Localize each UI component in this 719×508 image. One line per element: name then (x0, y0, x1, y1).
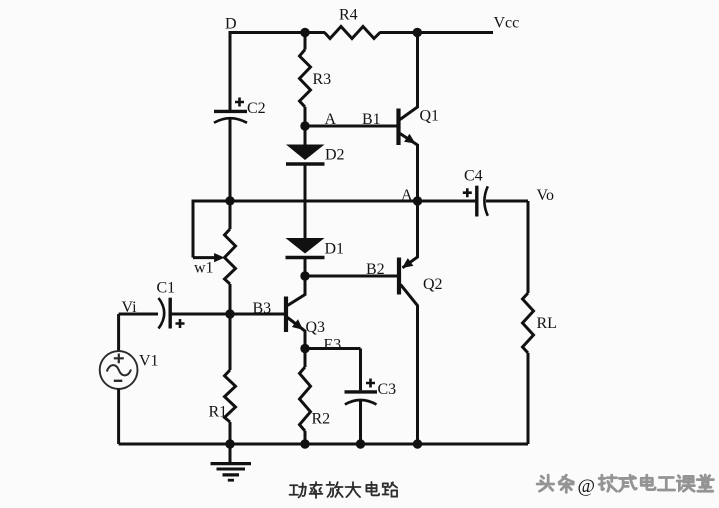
wire w1 to node B3 (229, 284, 232, 314)
label pin B3 (253, 300, 272, 317)
potentiometer w1 body (225, 229, 236, 284)
svg-text:E3: E3 (324, 337, 342, 354)
svg-text:RL: RL (537, 315, 557, 332)
node B3 (225, 309, 234, 318)
watermark 头条 @技成电工课堂 (535, 473, 713, 497)
capacitor C3 (345, 349, 378, 445)
label pin B1 (362, 111, 381, 128)
watermark @ sign (578, 476, 596, 497)
resistor R4 (325, 27, 381, 39)
node E3 (300, 344, 309, 353)
wire wiper arm of potentiometer w1 (193, 200, 225, 263)
ground (211, 444, 252, 480)
svg-text:V1: V1 (139, 353, 159, 370)
diode D2 (286, 126, 325, 164)
label R2 (312, 411, 331, 428)
svg-text:Vo: Vo (537, 187, 555, 204)
svg-text:C2: C2 (247, 100, 266, 117)
wire top rail from R4 to Vcc terminal (380, 31, 494, 34)
node A at R3 bottom (300, 121, 309, 130)
label D1 (325, 241, 345, 258)
svg-text:R2: R2 (312, 411, 331, 428)
svg-text:C3: C3 (378, 381, 397, 398)
node junction C2 / w1 / node-A rail (225, 196, 234, 205)
label node D (225, 16, 237, 33)
wire node-A rail right of C4 to Vo corner (486, 200, 528, 203)
wire top rail from node D to R4 (230, 31, 325, 34)
label RL (537, 315, 557, 332)
label R4 (339, 7, 358, 24)
wire from C2 down through node to potentiometer w1 (229, 119, 232, 230)
svg-text:R1: R1 (209, 404, 228, 421)
node junction bottom rail / R2 (300, 439, 309, 448)
wire input from Vi to C1 (119, 313, 158, 316)
svg-text:A: A (401, 187, 413, 204)
label C2 (247, 100, 266, 117)
capacitor C2 (214, 98, 247, 123)
label V1 (139, 353, 159, 370)
label node A on rail (401, 187, 413, 204)
svg-text:@: @ (578, 476, 596, 497)
wire base B3 of Q3 (230, 313, 284, 316)
wire bottom rail (119, 443, 528, 446)
wire Vi down to source V1 (117, 314, 120, 352)
wire Q1 emitter down to node A (416, 144, 419, 201)
wire C1 to node B3 (170, 313, 230, 316)
svg-text:B2: B2 (366, 261, 385, 278)
label Vo (537, 187, 555, 204)
label C4 (464, 168, 483, 185)
svg-text:C1: C1 (157, 279, 176, 296)
wire left branch from D down to capacitor C2 (229, 31, 232, 111)
svg-text:Vcc: Vcc (494, 15, 520, 32)
svg-text:D: D (225, 16, 237, 33)
label C3 (378, 381, 397, 398)
label D2 (325, 147, 345, 164)
node junction bottom rail / ground (225, 439, 234, 448)
resistor RL (523, 201, 534, 444)
transistor Q3 (286, 276, 305, 349)
wire node-A horizontal rail (193, 200, 475, 203)
transistor Q1 (399, 33, 418, 146)
svg-text:Vi: Vi (122, 299, 138, 316)
caption 功率放大电路 (290, 482, 397, 498)
label Q3 (306, 319, 326, 336)
svg-text:D1: D1 (325, 241, 345, 258)
node junction top rail / R3 (300, 28, 309, 37)
svg-text:A: A (325, 111, 337, 128)
label Q2 (423, 276, 443, 293)
svg-text:B1: B1 (362, 111, 381, 128)
label R3 (313, 71, 332, 88)
node junction bottom rail / Q2 collector (413, 439, 422, 448)
node A on rail at Q1 emitter (413, 196, 422, 205)
diode D1 (286, 238, 325, 276)
svg-text:B3: B3 (253, 300, 272, 317)
label Q1 (420, 108, 440, 125)
label w1 (194, 260, 214, 277)
label Vcc (494, 15, 520, 32)
resistor R1 (225, 314, 236, 444)
resistor R3 (300, 31, 311, 126)
wire node A to base B1 of Q1 (305, 125, 397, 128)
label Vi (122, 299, 138, 316)
svg-text:w1: w1 (194, 260, 214, 277)
wire emitter node E3 to C3 (305, 347, 361, 350)
svg-text:Q2: Q2 (423, 276, 443, 293)
svg-text:D2: D2 (325, 147, 345, 164)
wire from D2 cathode crossing node-A rail down to D1 (304, 164, 307, 239)
label R1 (209, 404, 228, 421)
transistor Q2 (399, 200, 418, 444)
node junction D1 / B2 / Q3 collector (300, 271, 309, 280)
svg-text:C4: C4 (464, 168, 483, 185)
label pin B2 (366, 261, 385, 278)
label C1 (157, 279, 176, 296)
resistor R2 (300, 349, 311, 445)
capacitor C1 (159, 298, 185, 329)
svg-text:R4: R4 (339, 7, 358, 24)
node junction bottom rail / C3 (356, 439, 365, 448)
svg-text:R3: R3 (313, 71, 332, 88)
wire V1 to bottom rail (117, 389, 120, 445)
label node A upper (325, 111, 337, 128)
capacitor C4 (463, 186, 488, 217)
svg-text:Q3: Q3 (306, 319, 326, 336)
svg-text:Q1: Q1 (420, 108, 440, 125)
node junction top rail / Q1 collector (413, 28, 422, 37)
wire base B2 of Q2 (305, 275, 397, 278)
label pin E3 (324, 337, 342, 354)
source V1 (100, 351, 138, 389)
